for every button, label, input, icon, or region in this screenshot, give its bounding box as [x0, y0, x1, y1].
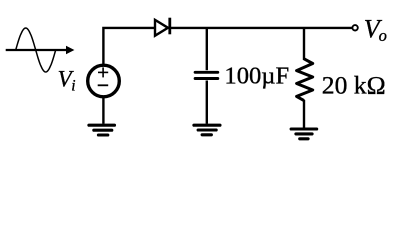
svg-text:o: o: [379, 26, 387, 45]
svg-text:20 kΩ: 20 kΩ: [322, 71, 386, 100]
svg-text:100µF: 100µF: [224, 62, 289, 89]
svg-text:i: i: [71, 78, 75, 95]
